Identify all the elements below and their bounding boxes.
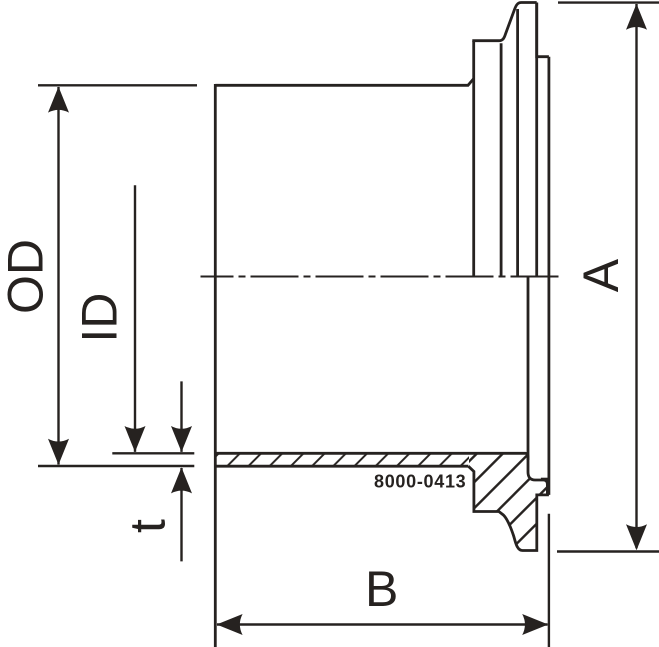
- wire OD bottom line: [217, 465, 469, 468]
- wire ID dimension line: [134, 185, 136, 452]
- wire bore step edge: [527, 276, 530, 460]
- wire t upper line: [180, 381, 182, 452]
- wire A bottom extension: [557, 550, 659, 552]
- node hatching: tube wall section band: [217, 453, 470, 466]
- wire ID extension: [112, 452, 194, 454]
- svg-text:B: B: [365, 561, 398, 617]
- wire face line: [548, 57, 551, 495]
- wire cone tangent edge: [516, 9, 519, 276]
- node dimension t: [180, 381, 182, 561]
- wire OD dimension line: [57, 87, 59, 465]
- wire A top extension: [558, 1, 659, 3]
- wire B dimension line: [217, 623, 548, 625]
- wire ring right edge: [500, 43, 503, 276]
- wire tube left edge and B extension: [214, 84, 217, 647]
- wire ID bore line and bore step contour: [217, 453, 548, 494]
- wire step edge: [535, 3, 538, 277]
- wire lip top surface: [537, 3, 549, 57]
- node centerline: [201, 276, 563, 278]
- wire B right extension: [548, 514, 550, 647]
- node hatching: flange cross-section: [468, 453, 547, 550]
- wire A dimension line: [635, 4, 637, 548]
- wire tube top line with weld chamfer: [215, 79, 473, 86]
- svg-text:8000-0413: 8000-0413: [374, 472, 466, 492]
- svg-text:OD: OD: [0, 239, 54, 314]
- node body outline: tube and ferrule (external view, top half): [215, 3, 549, 647]
- node section outline (bottom half): [217, 276, 549, 550]
- wire OD top extension: [38, 84, 197, 86]
- wire t lower line: [180, 468, 182, 561]
- svg-text:A: A: [573, 258, 629, 292]
- wire groove edge: [541, 478, 549, 481]
- node dimension OD: [38, 85, 197, 466]
- wire lip bottom and flange bottom outline: [468, 466, 549, 550]
- node dimension B: [217, 514, 549, 647]
- wire ring top and cone S-profile: [474, 3, 537, 43]
- svg-text:t: t: [120, 519, 176, 533]
- wire ring left edge: [472, 41, 475, 277]
- node dimension ID: [112, 185, 194, 453]
- node dimension A: [557, 3, 659, 552]
- wire OD bottom extension: [38, 465, 194, 467]
- svg-text:ID: ID: [72, 293, 128, 343]
